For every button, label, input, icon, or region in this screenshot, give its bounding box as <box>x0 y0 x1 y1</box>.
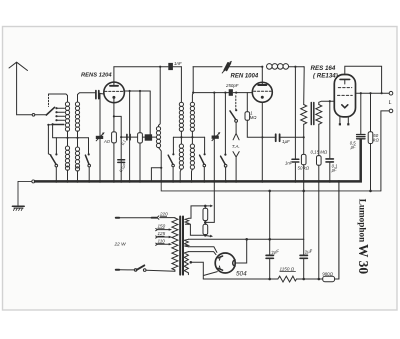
chain cap plates <box>127 134 130 139</box>
speaker terminal upper C <box>389 91 393 95</box>
HF choke on plate line <box>267 64 273 70</box>
svg-text:0,15 MΩ: 0,15 MΩ <box>311 150 328 155</box>
bus left connector circle <box>32 180 35 183</box>
lower tap dots and drops <box>47 123 53 126</box>
drop bus to divider mid <box>206 181 215 222</box>
coil L1 mid wire <box>67 131 69 146</box>
1150 ohm zigzag <box>278 276 297 282</box>
980 ohm box <box>323 276 335 281</box>
filament line to HT node <box>188 238 303 240</box>
1nF drop with cap <box>294 67 296 182</box>
coil R1 upper <box>75 102 79 131</box>
wire drop to tap line <box>52 124 54 138</box>
2uF cap 2 <box>303 239 305 279</box>
grid capacitor bars <box>96 91 99 99</box>
svg-text:504: 504 <box>236 270 247 277</box>
ground lead <box>18 181 32 205</box>
switch S2 left lower <box>55 153 57 155</box>
tap line junction dots <box>66 137 78 139</box>
RENS grid-row wire right of tube <box>124 90 151 92</box>
svg-text:150: 150 <box>158 224 166 229</box>
R2 bottom lead <box>191 131 193 137</box>
oscillator coil <box>156 127 160 148</box>
grid dashes row2 <box>338 94 353 96</box>
1nF coupling cap <box>168 63 173 70</box>
osc coil bottom to bus <box>159 148 162 182</box>
filament mark <box>342 105 348 108</box>
tube legs <box>340 117 348 123</box>
primary top lead with connector <box>160 217 175 219</box>
svg-text:Lumophon: Lumophon <box>357 199 367 242</box>
bus junction dots <box>55 180 340 183</box>
grid wire to tube <box>100 93 105 96</box>
2uF cap 1 <box>269 191 271 279</box>
anode stem <box>113 83 115 86</box>
coil R2 <box>190 102 194 131</box>
svg-text:1nF: 1nF <box>285 161 293 166</box>
divider bottom arrow <box>207 235 211 238</box>
svg-text:L: L <box>389 100 392 106</box>
mains switch <box>146 270 175 271</box>
1uF cap in cathode chain <box>262 136 275 138</box>
lower band coils L2b <box>179 144 183 169</box>
primary lead to 50k <box>303 124 305 154</box>
50k right drop <box>370 93 372 132</box>
cathode branch right <box>114 116 121 137</box>
T.A. upper plug <box>233 122 239 140</box>
L2 top lead <box>180 67 182 103</box>
REN 1004 stage <box>192 64 305 182</box>
trimmer wedge <box>212 136 219 139</box>
transformer core bars <box>180 217 183 275</box>
trimmer arrow on wire <box>224 63 230 70</box>
grid dashes row1 <box>338 87 352 89</box>
T.A. switch dashed drop <box>235 96 237 109</box>
svg-text:125: 125 <box>158 231 166 236</box>
cathode lead to bus <box>261 102 263 181</box>
svg-text:1150 Ω: 1150 Ω <box>280 266 295 271</box>
tap line <box>53 137 89 139</box>
filament winding A zigzag <box>185 218 189 224</box>
switch S3 right lower <box>88 153 90 155</box>
svg-text:22 W: 22 W <box>114 241 127 247</box>
svg-text:RENS 1204: RENS 1204 <box>81 73 112 79</box>
rectifier tube 504 <box>215 253 235 273</box>
wire x129.6 to bus <box>129 91 131 181</box>
anode T-bar <box>340 78 350 80</box>
plate feed down to AF primary <box>303 67 306 105</box>
wire drop left contact <box>48 125 51 155</box>
cathode RC chain wire <box>121 136 156 138</box>
band filter coils L2 <box>179 102 183 131</box>
svg-text:AO: AO <box>103 139 111 144</box>
link drop right to switch S1 <box>204 137 206 154</box>
svg-text:REN 1004: REN 1004 <box>231 74 259 80</box>
AF transformer core <box>311 103 314 125</box>
coil L1b to bus <box>67 170 69 181</box>
coil R1b to bus <box>77 171 79 182</box>
50k ohm box <box>301 154 306 164</box>
svg-text:µF: µF <box>351 145 356 150</box>
band switch blade <box>46 107 54 115</box>
secondary top to grid <box>319 101 335 104</box>
trimmer line AO <box>99 93 101 181</box>
mains tap arrows <box>156 229 158 231</box>
wire tapline to right lower switch <box>88 138 90 154</box>
mid link wire y137.25 <box>173 136 204 138</box>
svg-text:RES 164: RES 164 <box>311 65 336 72</box>
svg-text:110: 110 <box>158 238 166 243</box>
anode bar <box>110 85 118 87</box>
grid line wire <box>192 67 194 93</box>
wire x140 through box to bus <box>139 91 141 181</box>
T.A. lower plug <box>233 152 239 182</box>
primary winding zigzag <box>172 218 178 271</box>
svg-text:220: 220 <box>159 212 168 217</box>
svg-text:kΩ: kΩ <box>373 138 379 143</box>
coil R1b lower <box>75 147 79 171</box>
ground symbol <box>12 205 24 207</box>
rail junction dots <box>268 190 371 193</box>
tube REN 1004 envelope <box>252 82 272 102</box>
osc coil top hook to plate line <box>159 67 161 127</box>
main bus thick <box>35 140 361 182</box>
speaker terminal lower C <box>389 109 393 113</box>
coil R1 mid wire <box>77 131 79 147</box>
L2 bottom lead <box>180 131 182 137</box>
divider bracket to filament winding <box>189 206 206 218</box>
black box capacitor <box>145 134 152 140</box>
anode bar <box>258 84 266 86</box>
trimmer drop x214.3 <box>213 93 215 182</box>
wire x150 to black box <box>149 91 151 137</box>
link drop left with switch S4 <box>172 137 174 154</box>
bottom return line <box>203 278 277 280</box>
plate lead up <box>113 67 115 84</box>
filament line lower to rect <box>188 247 217 253</box>
svg-text:1nF: 1nF <box>174 61 182 66</box>
svg-text:980Ω: 980Ω <box>322 272 333 277</box>
secondary bottom long drop <box>318 124 320 155</box>
T.A. switch blade <box>230 111 236 120</box>
cathode dot <box>112 96 115 99</box>
AF secondary winding <box>316 105 322 125</box>
svg-text:W 30: W 30 <box>356 244 371 274</box>
wave switch drop x225.4 <box>224 93 226 154</box>
band switch contacts <box>57 108 65 120</box>
antenna <box>9 62 32 114</box>
bias resistor to bus <box>113 143 115 181</box>
top plate wire y66.7 <box>114 66 168 68</box>
RENS 1204 stage <box>96 67 125 182</box>
cathode junction dot <box>113 115 115 117</box>
1M grid leak <box>246 93 248 112</box>
white box resistor in x140 <box>138 133 143 143</box>
power supply section <box>115 181 339 282</box>
coil R2b <box>190 144 194 169</box>
HV mid tap <box>190 261 193 264</box>
chassis bus and HT rail <box>12 140 381 211</box>
cathode dot <box>261 96 264 99</box>
HV winding <box>184 252 188 275</box>
antenna connector circle <box>32 114 35 117</box>
grid dashes <box>105 90 123 92</box>
250pF cap plates <box>229 89 233 96</box>
svg-text:1µF: 1µF <box>282 139 290 144</box>
bias resistor box <box>112 132 117 143</box>
contact dots <box>55 107 57 121</box>
anode row wire to speaker terminal <box>356 92 389 94</box>
svg-text:µF: µF <box>332 168 337 173</box>
R2 top jog to grid dot <box>191 93 194 103</box>
0,1uF drop cap <box>120 137 122 181</box>
HT rail <box>161 181 381 191</box>
divider top arrow <box>207 205 211 207</box>
wire to band switch <box>35 114 47 116</box>
svg-text:250pF: 250pF <box>225 83 239 88</box>
0,15M box <box>317 156 322 166</box>
tube RENS 1204 envelope <box>104 82 125 103</box>
trimmer wedge AO <box>96 136 103 139</box>
cathode lead down <box>113 99 115 132</box>
wire tapline to left lower switch <box>55 138 57 154</box>
filament winding B <box>184 239 188 247</box>
svg-text:( RE134): ( RE134) <box>313 72 338 79</box>
AF transformer + output stage <box>301 66 393 279</box>
tube RES 164 envelope <box>334 75 355 117</box>
wire coil R1 top to grid <box>78 93 96 102</box>
svg-text:50 kΩ: 50 kΩ <box>298 165 310 170</box>
coil L1 upper antenna coil <box>65 102 69 131</box>
wire coil L1 top <box>49 94 68 102</box>
svg-text:T.A.: T.A. <box>232 144 240 149</box>
dashed drop to switch <box>48 94 50 106</box>
side contact notch <box>233 260 235 266</box>
0,5uF drop <box>360 93 362 134</box>
wave switch blade <box>221 156 226 164</box>
HV top to rect anode <box>188 252 216 255</box>
rect output to rail <box>236 239 247 263</box>
hum divider resistor upper <box>203 208 208 220</box>
AF transformer primary winding <box>301 105 307 125</box>
grid dashes <box>254 90 271 92</box>
svg-text:MΩ: MΩ <box>250 115 257 120</box>
coil L1b lower <box>65 146 69 170</box>
plate lead <box>261 67 263 83</box>
0,1uF cap drop <box>329 101 331 181</box>
plate lead top <box>345 66 382 93</box>
hum divider resistor lower <box>203 224 208 234</box>
